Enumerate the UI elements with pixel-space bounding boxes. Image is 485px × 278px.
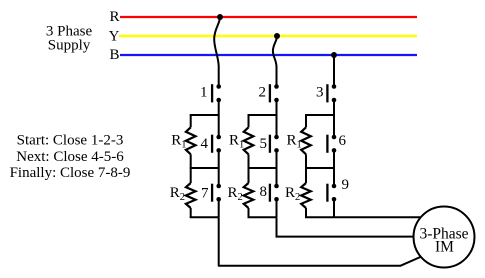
phase line Y (yellow bus) bbox=[119, 35, 417, 38]
wire: mid rail branch 1 bbox=[190, 167, 219, 169]
wire: switch 4 to switch 7 bbox=[218, 150, 220, 186]
wire: switch 5 to switch 8 bbox=[276, 150, 278, 186]
svg-text:R: R bbox=[109, 9, 119, 25]
svg-text:8: 8 bbox=[260, 184, 268, 200]
wire: bottom rail branch 1 bbox=[190, 216, 219, 218]
svg-text:1: 1 bbox=[200, 85, 208, 101]
motor M1: 3-phase induction motor bbox=[414, 207, 475, 268]
wire: top rail of R1 cell branch 1 bbox=[190, 114, 219, 116]
svg-text:R1: R1 bbox=[171, 133, 186, 151]
switch S3 bbox=[327, 84, 336, 102]
svg-text:7: 7 bbox=[201, 185, 209, 201]
wire: R bus down to switch 1 (crossover hop) bbox=[214, 18, 220, 87]
svg-text:R1: R1 bbox=[229, 133, 244, 151]
junction node on B bus bbox=[331, 52, 337, 58]
junction node on R bus bbox=[217, 14, 223, 20]
wire: top rail of R1 cell branch 2 bbox=[248, 114, 277, 116]
wire: top rail of R1 cell branch 3 bbox=[305, 114, 334, 116]
resistor R1 (branch 1) bbox=[190, 115, 192, 127]
switch S2 bbox=[270, 84, 279, 102]
wire: branch 2 to motor (middle run) bbox=[277, 217, 416, 236]
wire: bottom rail branch 2 bbox=[248, 216, 277, 218]
svg-text:5: 5 bbox=[260, 136, 268, 152]
wire: bottom rail branch 3 bbox=[305, 216, 334, 218]
svg-text:9: 9 bbox=[342, 177, 350, 193]
wire: switch 1 to switch 4 (branch 1 vertical) bbox=[218, 100, 220, 137]
wire: branch 3 to motor (top run) bbox=[334, 216, 422, 218]
wire: switch 8 down to bottom rail bbox=[276, 199, 278, 217]
wire: B bus down to switch 3 bbox=[333, 55, 335, 87]
svg-text:Supply: Supply bbox=[48, 38, 91, 54]
svg-text:B: B bbox=[109, 47, 119, 63]
switch S5 bbox=[270, 135, 279, 153]
phase line R (red bus) bbox=[120, 16, 417, 18]
svg-text:R2: R2 bbox=[170, 185, 185, 203]
wire: switch 2 to switch 5 (branch 2 vertical) bbox=[276, 100, 278, 137]
svg-text:Start: Close 1-2-3: Start: Close 1-2-3 bbox=[17, 133, 124, 149]
resistor R2 (branch 3) bbox=[305, 168, 307, 183]
wire: switch 7 down to bottom rail bbox=[218, 199, 220, 217]
wire: mid rail branch 3 bbox=[305, 167, 334, 169]
svg-text:3: 3 bbox=[316, 85, 324, 101]
switch S6 bbox=[327, 135, 336, 153]
wire: Y bus down to switch 2 (crossover hop) bbox=[273, 37, 277, 87]
svg-text:Y: Y bbox=[109, 28, 120, 44]
svg-text:2: 2 bbox=[259, 85, 267, 101]
junction node on Y bus bbox=[274, 33, 280, 39]
wire: switch 6 to switch 9 bbox=[333, 150, 335, 186]
resistor R1 (branch 2) bbox=[248, 115, 250, 127]
svg-text:6: 6 bbox=[339, 133, 347, 149]
switch S7 bbox=[212, 184, 221, 202]
switch S9 bbox=[327, 184, 336, 202]
phase line B (blue bus) bbox=[120, 54, 417, 56]
svg-text:4: 4 bbox=[201, 136, 209, 152]
switch S4 bbox=[212, 135, 221, 153]
svg-text:IM: IM bbox=[435, 238, 454, 255]
wire: mid rail branch 2 bbox=[248, 167, 277, 169]
switch S8 bbox=[270, 184, 279, 202]
svg-text:R2: R2 bbox=[285, 185, 300, 203]
wire: switch 3 to switch 6 (branch 3 vertical) bbox=[333, 100, 335, 137]
svg-text:R2: R2 bbox=[228, 185, 243, 203]
resistor R2 (branch 1) bbox=[190, 168, 192, 183]
svg-text:Next: Close 4-5-6: Next: Close 4-5-6 bbox=[16, 149, 124, 165]
wire: branch 1 to motor (bottom run) bbox=[219, 217, 422, 265]
resistor R2 (branch 2) bbox=[248, 168, 250, 183]
svg-text:Finally: Close 7-8-9: Finally: Close 7-8-9 bbox=[10, 165, 131, 181]
svg-text:R1: R1 bbox=[287, 133, 302, 151]
switch S1 bbox=[212, 84, 221, 102]
resistor R1 (branch 3) bbox=[305, 115, 307, 127]
wire: switch 9 down to bottom rail bbox=[333, 199, 335, 217]
